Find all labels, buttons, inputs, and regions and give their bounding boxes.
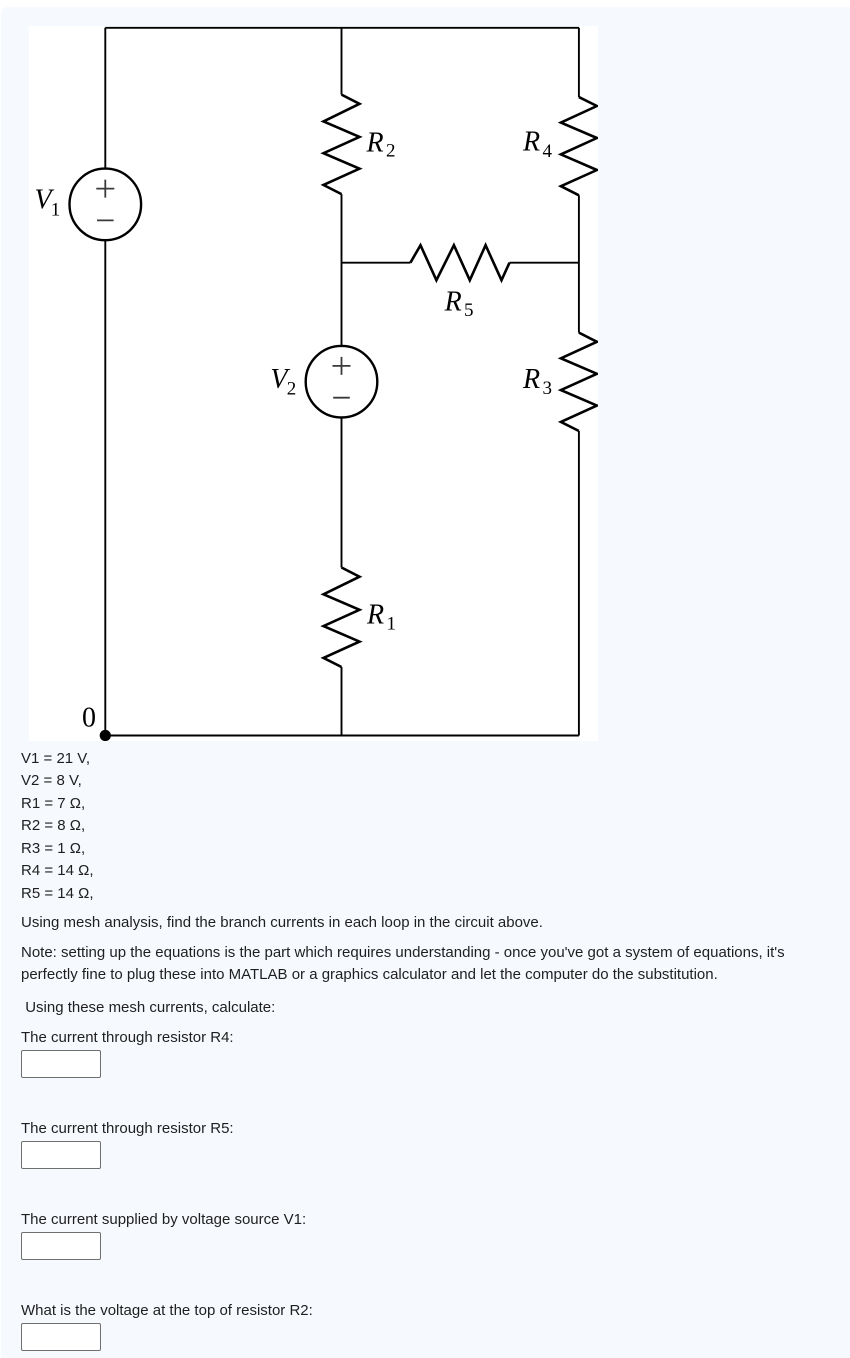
resistor R3 xyxy=(561,333,597,431)
R1 label xyxy=(366,600,396,635)
question R5 xyxy=(21,1118,234,1141)
wire right bottom xyxy=(578,431,580,736)
voltage source V2 circle xyxy=(306,346,378,418)
svg-text:R: R xyxy=(366,128,384,159)
wire middle between V2 and R1 xyxy=(341,418,343,568)
svg-text:4: 4 xyxy=(543,141,553,162)
circuit diagram white area xyxy=(29,26,598,741)
component values text xyxy=(21,748,94,906)
question R4 xyxy=(21,1027,234,1050)
input box 1 xyxy=(21,1050,101,1078)
wire top horizontal xyxy=(105,27,579,29)
wire middle bottom xyxy=(341,667,343,736)
svg-text:R: R xyxy=(522,127,540,158)
calculate prompt xyxy=(25,997,275,1020)
V1 label xyxy=(35,185,61,221)
svg-text:1: 1 xyxy=(387,614,397,635)
V1 plus sign xyxy=(96,180,114,198)
input box 3 xyxy=(21,1232,101,1260)
input box 4 xyxy=(21,1323,101,1351)
R4 label xyxy=(522,127,553,163)
R2 label xyxy=(366,128,396,162)
R5 label xyxy=(444,287,474,321)
wire right between R4 and R3 xyxy=(578,195,580,332)
svg-text:1: 1 xyxy=(51,200,61,221)
input box 2 xyxy=(21,1141,101,1169)
wire middle between R2 and V2 xyxy=(341,194,343,346)
V2 label xyxy=(270,364,296,400)
V2 minus sign xyxy=(333,397,350,399)
question V1 xyxy=(21,1209,306,1232)
wire R5 right lead xyxy=(510,262,579,264)
wire R5 left lead xyxy=(342,262,411,264)
svg-text:2: 2 xyxy=(386,141,396,162)
wire bottom horizontal xyxy=(105,735,579,737)
wire left lower xyxy=(104,240,106,735)
voltage source V1 circle xyxy=(70,169,142,241)
V1 minus sign xyxy=(97,219,114,221)
wire right branch top xyxy=(578,28,580,97)
question R2 voltage xyxy=(21,1300,313,1323)
resistor R1 xyxy=(324,568,360,668)
svg-text:2: 2 xyxy=(287,379,297,400)
svg-text:0: 0 xyxy=(82,703,96,734)
V2 plus sign xyxy=(333,357,351,375)
wire middle branch top xyxy=(341,28,343,95)
instruction paragraph xyxy=(21,912,543,935)
svg-text:R: R xyxy=(444,287,462,318)
resistor R2 xyxy=(324,95,360,195)
R3 label xyxy=(522,364,552,399)
svg-text:3: 3 xyxy=(543,378,553,399)
resistor R4 xyxy=(561,97,597,195)
node 0 junction dot xyxy=(100,730,111,741)
svg-text:R: R xyxy=(366,600,384,631)
svg-text:5: 5 xyxy=(464,300,474,321)
note paragraph xyxy=(21,942,785,987)
resistor R5 xyxy=(410,245,509,280)
svg-text:R: R xyxy=(522,364,540,395)
wire left upper xyxy=(104,28,106,169)
